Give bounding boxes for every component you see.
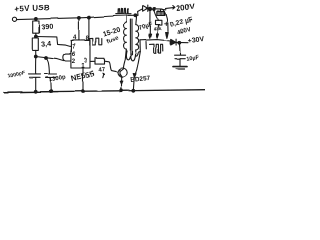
filter component hatched box on 200V rail <box>160 10 162 12</box>
wire secondary bottom drop <box>133 40 140 91</box>
wire +5V rail <box>17 15 138 19</box>
resistor R2 3,4 <box>32 38 38 50</box>
wire pin4 to rail <box>78 18 80 41</box>
capacitor C6 10uF on 30V rail <box>178 43 181 55</box>
capacitor C3 70uF drop from 200V rail <box>149 8 152 11</box>
wire pin6+2 tie loop <box>63 54 71 61</box>
timer IC U1 NE555 <box>71 40 90 68</box>
wire ground rail <box>4 90 205 92</box>
squarewave glyph pin3 <box>90 38 102 45</box>
wire 200V rail <box>148 9 166 10</box>
wire to 555 pins 2+6 <box>36 56 64 61</box>
wire to 555 pin 7 <box>36 37 71 47</box>
svg-text:390: 390 <box>41 22 54 32</box>
ground symbol C5 <box>174 66 188 68</box>
node junction R2/cap/wire <box>34 55 37 58</box>
wire pin8 to rail <box>88 18 90 41</box>
svg-text:3,4: 3,4 <box>41 39 52 49</box>
capacitor C1 1000pF <box>35 56 37 73</box>
svg-text:47: 47 <box>98 67 106 74</box>
node junction rail/R1 <box>35 18 38 21</box>
node cap C1 / ground <box>34 90 37 93</box>
capacitor C2 1300p <box>46 58 49 74</box>
wire 30V tap <box>140 40 171 41</box>
diode D2 <box>171 39 176 45</box>
wire emitter to ground <box>120 77 122 91</box>
wire pin3 out <box>90 60 95 62</box>
diode D1 <box>138 9 143 15</box>
node junction wire/C2 <box>45 56 48 59</box>
transistor Q1 BD257 <box>118 68 127 77</box>
transformer core <box>129 19 131 55</box>
resistor R4 48k drop from 200V rail <box>153 8 156 11</box>
wire R3 to base <box>105 61 119 72</box>
wire pin1 to ground <box>82 68 84 92</box>
transformer T1 primary winding <box>125 16 127 22</box>
node cap C2 / ground <box>49 90 52 93</box>
capacitor C4 0,22uF 400V drop from 200V rail <box>164 10 169 32</box>
squarewave glyph 30V <box>146 42 163 53</box>
node +5V input terminal <box>12 17 16 21</box>
svg-text:+5V USB: +5V USB <box>14 3 50 13</box>
label 200V <box>166 6 175 9</box>
resistor R1 390 <box>35 19 37 21</box>
transformer bottom loops <box>126 50 140 61</box>
wire collector to primary <box>123 49 126 69</box>
spikes waveform glyph <box>116 8 131 14</box>
resistor R3 47 <box>95 58 105 64</box>
node junction R1/R2 <box>35 35 38 38</box>
transformer T1 secondary winding <box>136 15 138 24</box>
